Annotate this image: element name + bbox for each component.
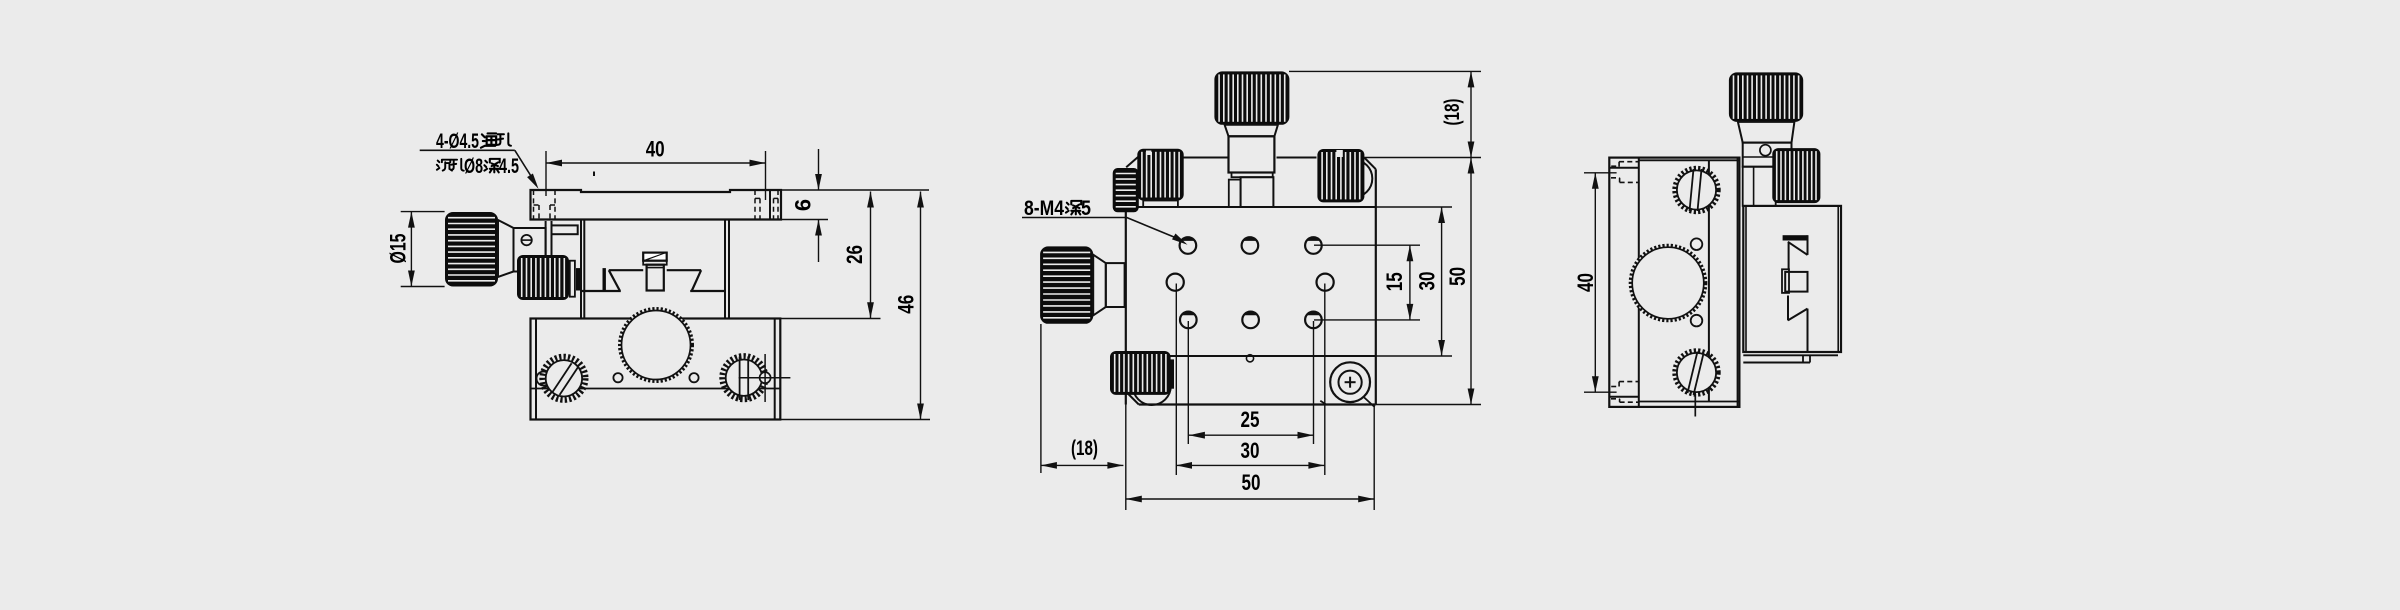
svg-text:Ø8: Ø8 <box>464 155 483 178</box>
svg-text:6: 6 <box>791 199 816 211</box>
svg-text:50: 50 <box>1242 470 1261 495</box>
svg-text:30: 30 <box>1241 438 1260 463</box>
svg-text:(18): (18) <box>1441 99 1464 126</box>
svg-text:5: 5 <box>1081 197 1091 220</box>
svg-text:(18): (18) <box>1071 437 1098 460</box>
svg-text:15: 15 <box>1382 272 1407 291</box>
svg-text:8-M4: 8-M4 <box>1024 197 1064 220</box>
svg-text:25: 25 <box>1241 407 1260 432</box>
svg-text:50: 50 <box>1445 267 1470 286</box>
svg-text:4.5: 4.5 <box>499 155 519 178</box>
svg-text:46: 46 <box>893 295 918 314</box>
svg-text:40: 40 <box>646 137 665 162</box>
svg-text:40: 40 <box>1573 273 1598 292</box>
svg-text:30: 30 <box>1415 272 1440 291</box>
svg-text:4-Ø4.5: 4-Ø4.5 <box>436 130 479 153</box>
svg-text:26: 26 <box>842 245 867 264</box>
svg-text:Ø15: Ø15 <box>386 234 411 264</box>
